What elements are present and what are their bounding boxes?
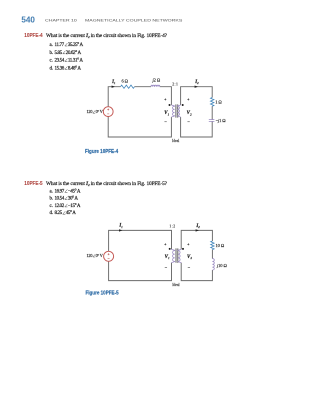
polarity plus V1 fig2 bbox=[164, 243, 166, 245]
svg-text:j10 Ω: j10 Ω bbox=[216, 263, 227, 268]
figure 10PFE-4 circuit bbox=[108, 87, 212, 137]
svg-text:What is the current I2 in the: What is the current I2 in the circuit sh… bbox=[46, 181, 168, 187]
svg-text:Ideal: Ideal bbox=[172, 139, 179, 143]
svg-text:−15° A: −15° A bbox=[68, 204, 81, 209]
svg-text:0° V: 0° V bbox=[96, 109, 103, 114]
inductor j2ohm bbox=[151, 85, 160, 87]
svg-text:What is the current I2 in the: What is the current I2 in the circuit sh… bbox=[46, 33, 168, 39]
svg-text:30° A: 30° A bbox=[68, 197, 79, 202]
figure 10PFE-5 circuit bbox=[109, 230, 213, 280]
svg-text:c.: c. bbox=[50, 204, 53, 209]
dot primary T2 bbox=[169, 248, 171, 250]
svg-text:16.97: 16.97 bbox=[55, 189, 65, 194]
svg-text:2: 2 bbox=[190, 256, 192, 260]
svg-text:12.02: 12.02 bbox=[55, 204, 65, 209]
transformer T2 core bbox=[175, 248, 177, 262]
current arrow I1 fig1 bbox=[112, 86, 115, 88]
svg-text:2: 2 bbox=[198, 225, 200, 229]
wire: primary loop bottom fig2 bbox=[109, 261, 172, 280]
wire: resistor to capacitor bbox=[211, 106, 213, 119]
svg-text:0° V: 0° V bbox=[96, 253, 103, 258]
svg-text:11.77: 11.77 bbox=[55, 43, 65, 48]
svg-text:CHAPTER 10: CHAPTER 10 bbox=[45, 18, 78, 23]
polarity minus V1 fig1 bbox=[164, 121, 166, 123]
svg-text:10 Ω: 10 Ω bbox=[216, 243, 225, 248]
transformer T1 core bbox=[175, 104, 177, 117]
wire: primary top-left bbox=[108, 87, 120, 107]
svg-text:Figure 10PFE-5: Figure 10PFE-5 bbox=[86, 290, 119, 296]
svg-text:Ideal: Ideal bbox=[172, 283, 179, 287]
wire: secondary top fig2 bbox=[181, 230, 212, 249]
svg-text:d.: d. bbox=[50, 66, 54, 71]
svg-text:2: 2 bbox=[197, 81, 199, 85]
current arrow I2 fig1 bbox=[195, 86, 198, 88]
polarity plus V1 fig1 bbox=[164, 98, 166, 100]
svg-text:10PFE-5: 10PFE-5 bbox=[24, 181, 42, 188]
svg-text:MAGNETICALLY COUPLED NETWORKS: MAGNETICALLY COUPLED NETWORKS bbox=[85, 18, 183, 23]
voltage source 120V fig2 bbox=[104, 251, 114, 261]
svg-text:b.: b. bbox=[50, 197, 54, 202]
polarity plus V2 fig2 bbox=[187, 243, 189, 245]
svg-text:120: 120 bbox=[87, 253, 93, 258]
dot secondary T1 bbox=[182, 104, 184, 106]
transformer T2 secondary coil bbox=[178, 249, 181, 263]
svg-text:c.: c. bbox=[50, 59, 53, 64]
capacitor -j1ohm bbox=[209, 120, 215, 122]
svg-text:−j1 Ω: −j1 Ω bbox=[216, 118, 227, 123]
svg-text:1: 1 bbox=[121, 225, 123, 229]
svg-text:2: 2 bbox=[190, 112, 192, 116]
dot secondary T2 bbox=[182, 248, 184, 250]
svg-text:6 Ω: 6 Ω bbox=[122, 79, 129, 84]
svg-text:1: 1 bbox=[168, 256, 170, 260]
polarity minus V1 fig2 bbox=[165, 267, 167, 269]
wire: primary bottom bbox=[108, 116, 171, 137]
svg-text:15.36: 15.36 bbox=[55, 66, 65, 71]
wire: resistor to inductor bbox=[135, 86, 152, 88]
dot primary T1 bbox=[169, 104, 171, 106]
svg-text:11.31° A: 11.31° A bbox=[68, 59, 84, 64]
wire: capacitor to bottom bbox=[181, 117, 213, 137]
wire: inductor to bottom fig2 bbox=[181, 263, 212, 281]
svg-text:d.: d. bbox=[50, 211, 54, 216]
transformer T2 primary coil bbox=[172, 249, 175, 263]
svg-text:540: 540 bbox=[21, 15, 35, 24]
svg-text:1 : 2: 1 : 2 bbox=[169, 224, 175, 228]
voltage source 120V fig1 bbox=[103, 107, 113, 117]
current arrow I2 fig2 bbox=[196, 229, 199, 231]
svg-text:45° A: 45° A bbox=[66, 211, 77, 216]
wire: primary loop top fig2 bbox=[109, 230, 172, 251]
svg-text:1: 1 bbox=[114, 81, 116, 85]
svg-text:a.: a. bbox=[50, 43, 53, 48]
polarity minus V2 fig1 bbox=[187, 121, 189, 123]
svg-text:10PFE-4: 10PFE-4 bbox=[24, 33, 42, 40]
svg-text:5.85: 5.85 bbox=[55, 51, 63, 56]
transformer T1 secondary coil bbox=[177, 105, 180, 118]
svg-text:20.62° A: 20.62° A bbox=[66, 51, 82, 56]
inductor j10ohm bbox=[212, 259, 214, 270]
wire: resistor to inductor fig2 bbox=[211, 250, 213, 259]
svg-text:2 : 1: 2 : 1 bbox=[172, 83, 178, 87]
resistor 1ohm bbox=[211, 98, 214, 107]
svg-text:1 Ω: 1 Ω bbox=[215, 99, 222, 104]
wire: secondary loop top bbox=[181, 87, 213, 105]
svg-text:j2 Ω: j2 Ω bbox=[152, 77, 161, 82]
polarity plus V2 fig1 bbox=[187, 98, 189, 100]
svg-text:23.54: 23.54 bbox=[55, 59, 65, 64]
svg-text:10.54: 10.54 bbox=[55, 197, 65, 202]
svg-text:1: 1 bbox=[168, 112, 170, 116]
svg-text:120: 120 bbox=[87, 109, 93, 114]
svg-text:Figure 10PFE-4: Figure 10PFE-4 bbox=[85, 149, 118, 155]
svg-text:35.25° A: 35.25° A bbox=[68, 43, 84, 48]
svg-text:8.25: 8.25 bbox=[55, 211, 63, 216]
wire: inductor to transformer primary bbox=[160, 87, 172, 105]
svg-text:a.: a. bbox=[50, 189, 53, 194]
current arrow I1 fig2 bbox=[119, 229, 122, 231]
resistor 6ohm bbox=[121, 85, 135, 88]
resistor 10ohm bbox=[211, 241, 214, 250]
transformer T1 primary coil bbox=[171, 105, 174, 118]
polarity minus V2 fig2 bbox=[188, 267, 190, 269]
svg-text:8.48° A: 8.48° A bbox=[68, 66, 82, 71]
svg-text:b.: b. bbox=[50, 51, 54, 56]
svg-text:−45° A: −45° A bbox=[68, 189, 81, 194]
